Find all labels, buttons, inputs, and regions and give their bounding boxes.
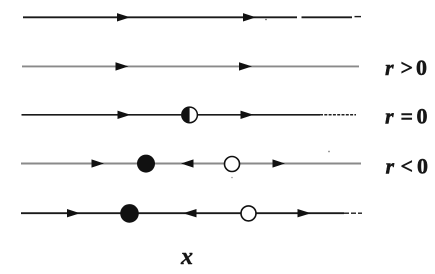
svg-text:0: 0	[417, 104, 428, 129]
svg-text:r: r	[385, 104, 394, 129]
svg-text:<: <	[401, 154, 414, 179]
svg-text:x: x	[180, 244, 193, 270]
svg-text:>: >	[401, 55, 414, 80]
svg-text:=: =	[401, 104, 414, 129]
svg-text:0: 0	[416, 55, 427, 80]
svg-text:r: r	[385, 55, 394, 80]
svg-text:r: r	[386, 154, 395, 179]
svg-text:0: 0	[417, 154, 428, 179]
